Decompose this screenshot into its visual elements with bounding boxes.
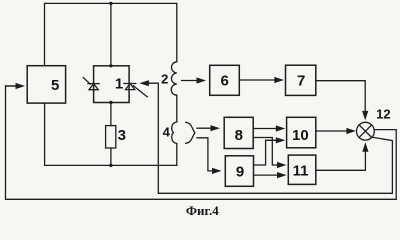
varactor VD2 (right, on block 1 edge) (124, 84, 147, 97)
inductor L4 primary (172, 122, 177, 144)
block 10 (287, 117, 316, 148)
block 7 (286, 65, 316, 95)
wire: tank vertical between L2 and L4 (176, 95, 178, 122)
wire: block 8 to block 10 (253, 128, 276, 130)
svg-text:7: 7 (297, 73, 305, 90)
svg-text:4: 4 (163, 124, 171, 139)
wire: common rail (block 5 bottom to tank coil) (45, 103, 177, 165)
block 6 (210, 65, 240, 95)
inductor L4 secondary (186, 122, 195, 143)
wire: top bus to block 1 (110, 3, 112, 65)
wire: block 7 to mixer 12 (316, 81, 365, 112)
junction: R3 / common rail (109, 164, 112, 167)
svg-text:10: 10 (292, 127, 309, 144)
wire: block 10 to mixer 12 (316, 130, 347, 132)
wire: block 11 to mixer 12 (316, 152, 366, 171)
wire: block 9 to block 10 (254, 140, 277, 165)
wire: mixer 12 output / feedback to block 5 (6, 86, 397, 199)
block 5 (27, 66, 65, 103)
junction: block 1 top pin (109, 64, 112, 67)
wire: L4 secondary to block 9 (197, 138, 213, 171)
wire: arrow into block 5 (6, 85, 17, 87)
svg-text:3: 3 (118, 127, 126, 144)
svg-text:9: 9 (236, 164, 244, 181)
resistor R3 (110, 103, 112, 126)
svg-text:8: 8 (235, 127, 243, 144)
svg-text:1: 1 (115, 76, 123, 93)
varactor VD1 (left, on block 1 edge) (83, 78, 99, 90)
svg-text:Фиг.4: Фиг.4 (186, 203, 219, 218)
svg-text:6: 6 (221, 73, 229, 90)
wire: L4 secondary to block 8 (197, 127, 212, 129)
block 11 (288, 155, 316, 184)
wire: block 8 to block 11 (253, 138, 278, 166)
junction: top bus / oscillator 1 (109, 2, 112, 5)
wire: L2 output to block 6 (182, 80, 198, 82)
wire: top supply bus (45, 3, 177, 65)
mixer U12 (357, 122, 375, 140)
inductor L2 (171, 62, 177, 95)
svg-text:2: 2 (161, 72, 168, 87)
svg-text:11: 11 (293, 163, 309, 180)
block 9 (225, 156, 253, 187)
wire: block 9 to block 11 (254, 174, 279, 176)
junction: block 1 bottom pin (109, 101, 112, 104)
block 1 (oscillator) (94, 66, 130, 103)
svg-text:5: 5 (51, 77, 59, 94)
block 8 (224, 117, 253, 148)
wire: block 6 to block 7 (240, 79, 275, 81)
wire: tank vertical below L4 (176, 144, 178, 166)
wire: AFC feedback from mixer 12 to varactor VD2 (148, 83, 392, 193)
svg-text:12: 12 (376, 106, 390, 121)
